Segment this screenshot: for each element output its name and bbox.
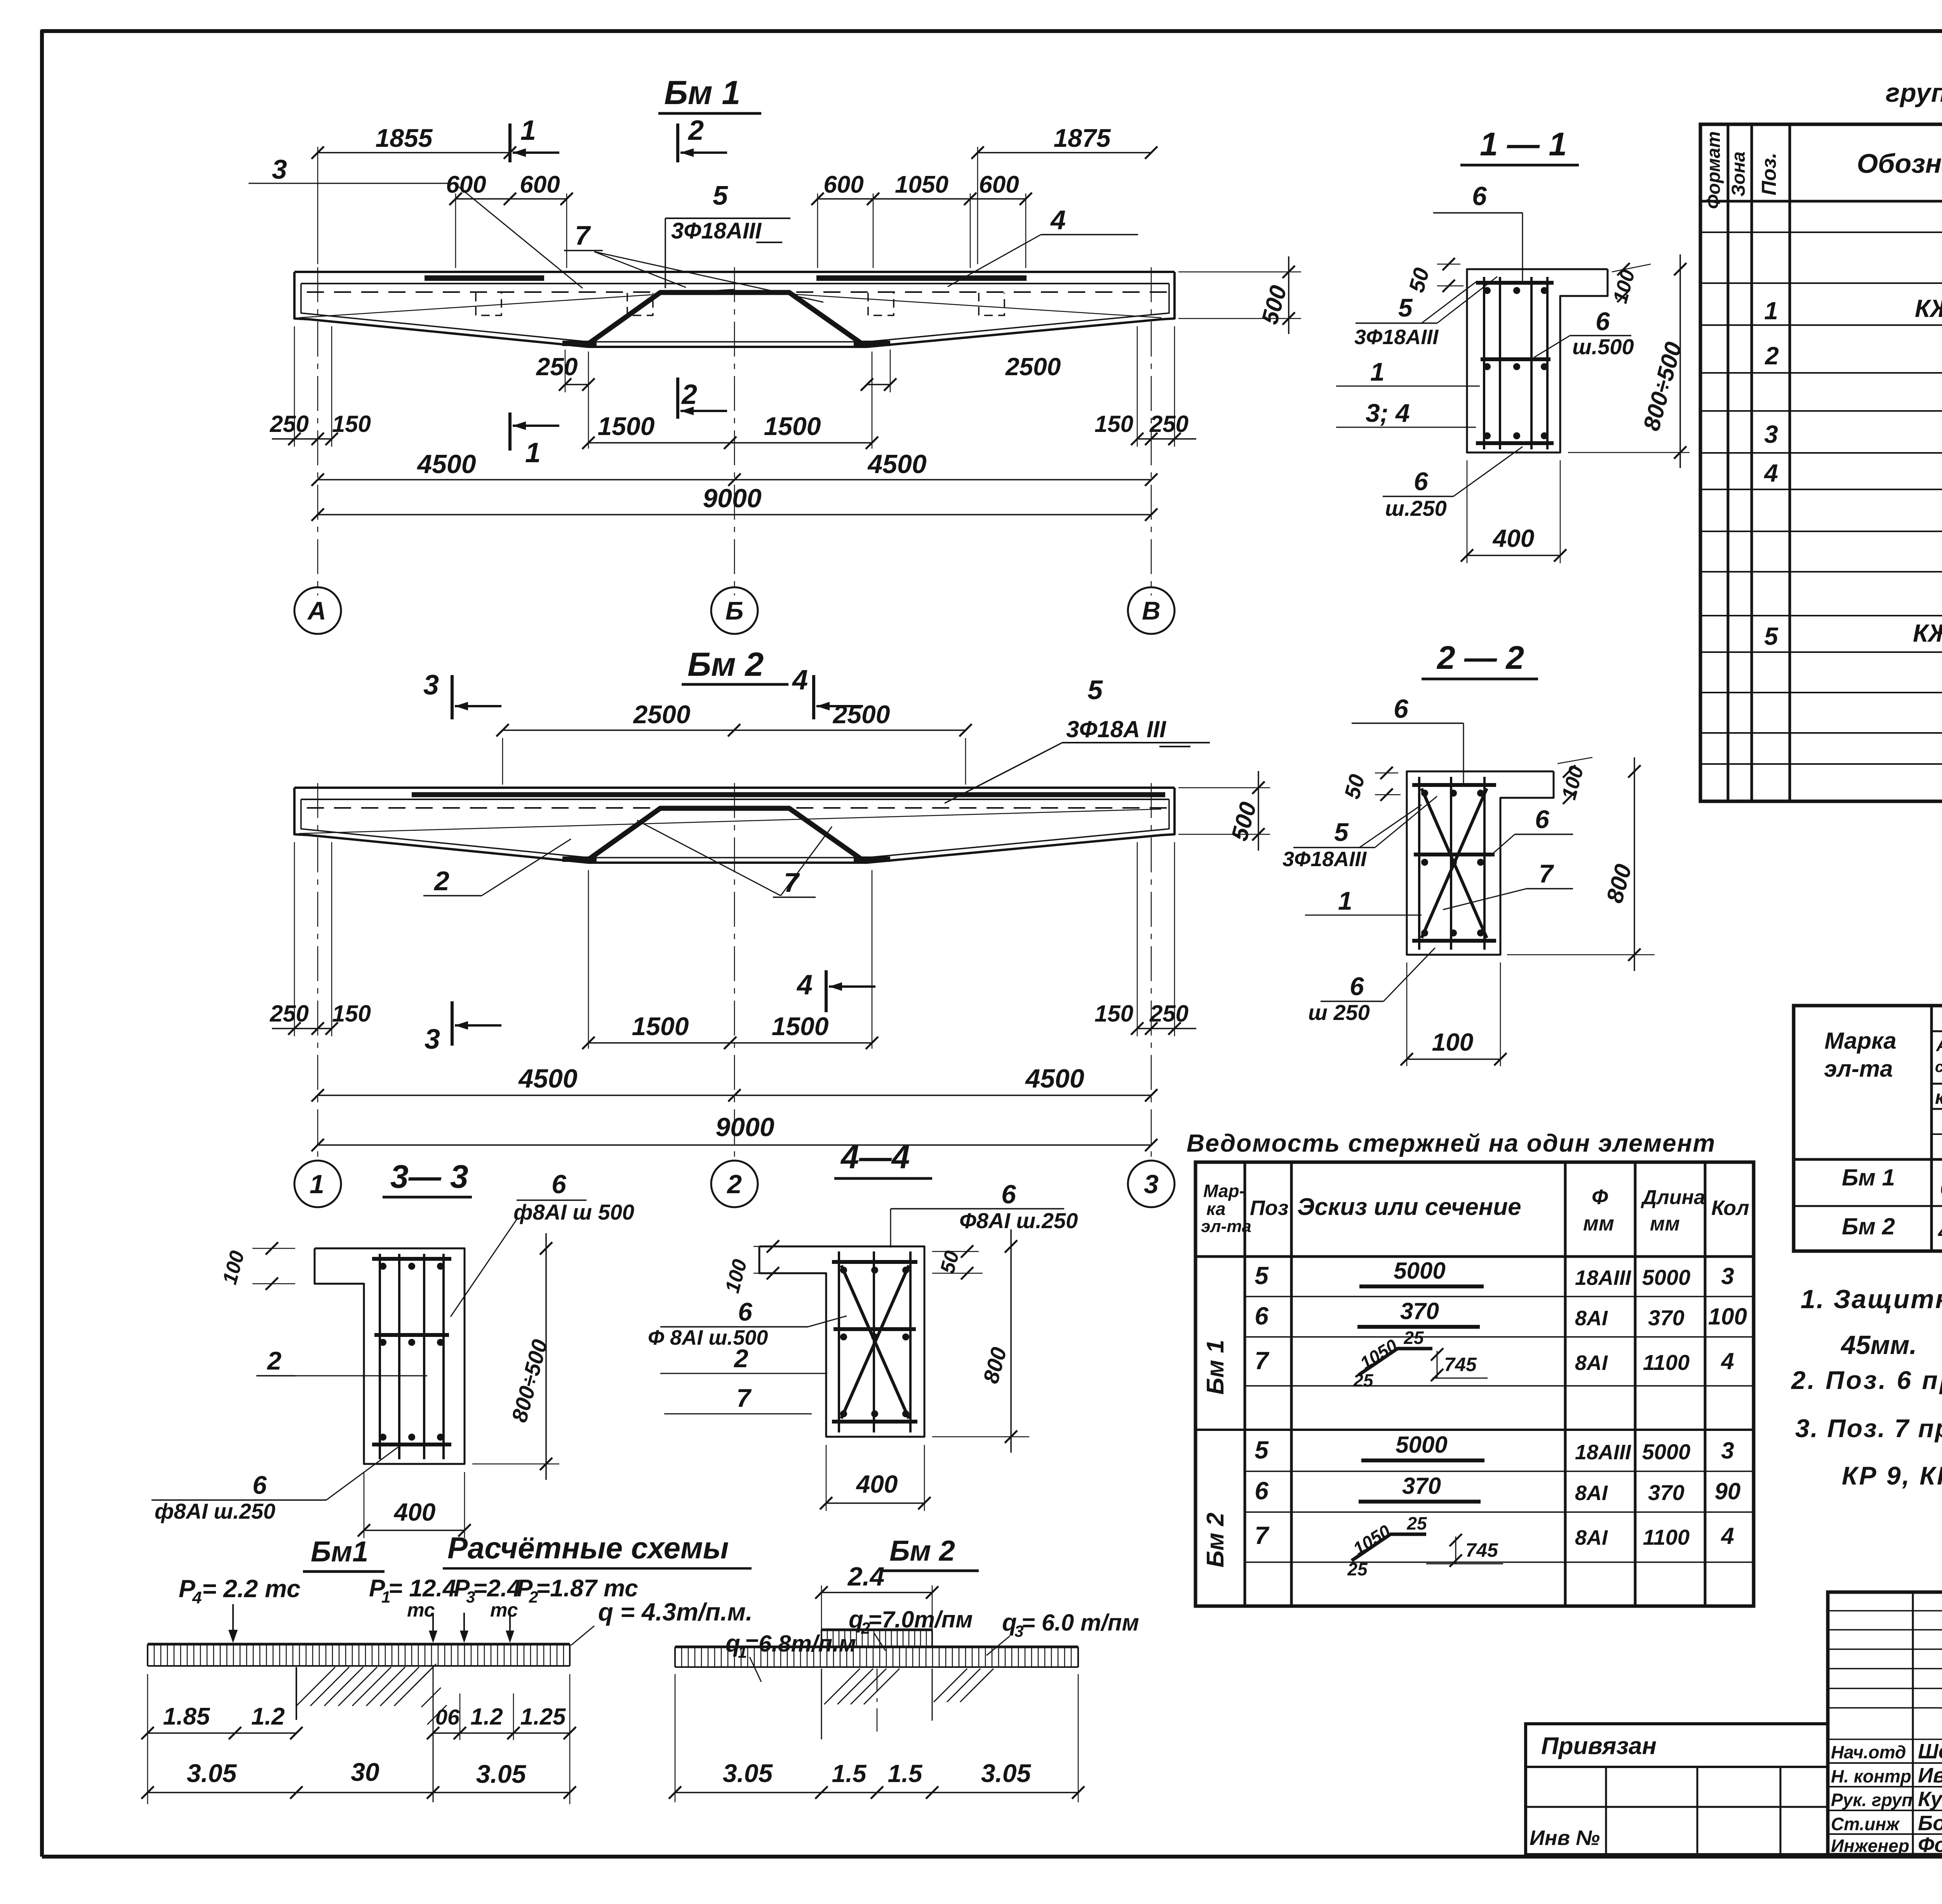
svg-text:3Ф18АIII: 3Ф18АIII <box>671 218 762 244</box>
svg-text:250: 250 <box>1149 1001 1189 1027</box>
section 4-4 callout 7 left <box>664 1384 812 1414</box>
svg-text:Бм 2: Бм 2 <box>1842 1213 1895 1239</box>
section 2-2 horizontal bars <box>1412 785 1496 941</box>
svg-text:4: 4 <box>1050 205 1066 235</box>
svg-text:600: 600 <box>979 171 1019 198</box>
svg-text:2: 2 <box>266 1346 282 1375</box>
svg-text:7: 7 <box>575 220 591 251</box>
section 1-1 dim 50 left <box>1404 258 1463 295</box>
svg-text:А: А <box>307 596 326 625</box>
bar schedule label Бм 1 <box>1202 1340 1229 1394</box>
svg-text:Бм 1: Бм 1 <box>1842 1164 1895 1190</box>
svg-text:1: 1 <box>520 115 536 146</box>
axis line А <box>317 267 318 595</box>
callout 2 Бм2 <box>423 839 571 896</box>
section 4-4 callout 6 Ф8АI ш.250 top <box>891 1180 1078 1248</box>
section 3-3 callout 2 <box>256 1346 427 1376</box>
beam Бм2 long top bar pos.5 (heavy) <box>412 792 1165 797</box>
section 1-1 callout 1 left <box>1336 357 1480 386</box>
svg-text:6: 6 <box>252 1471 267 1499</box>
svg-text:2.4: 2.4 <box>847 1562 885 1591</box>
svg-text:6: 6 <box>1472 181 1487 211</box>
section 2-2 callout 5 3Ф18АIII <box>1282 796 1437 871</box>
section 4-4 title <box>834 1139 932 1178</box>
dimension 250 150 far left Бм2 <box>270 842 371 1036</box>
scheme Бм2 load label q1 <box>726 1630 856 1682</box>
svg-text:25: 25 <box>1347 1559 1368 1579</box>
vertical dimension 500 right of Бм1 <box>1178 256 1301 334</box>
axis line Б <box>734 267 735 595</box>
section 4-4 concrete outline <box>759 1246 924 1437</box>
svg-text:400: 400 <box>393 1498 436 1526</box>
svg-text:06: 06 <box>435 1705 460 1729</box>
svg-text:=7.0т/пм: =7.0т/пм <box>868 1606 973 1632</box>
svg-text:1: 1 <box>1370 357 1385 386</box>
dimension 1500 1500 Бм2 <box>582 870 878 1049</box>
svg-text:8АI: 8АI <box>1575 1307 1608 1330</box>
axis line 3 <box>1151 783 1152 1160</box>
callout 5 3Ф18А III Бм2 <box>945 675 1210 803</box>
dimension 600 600 left <box>446 171 573 268</box>
section mark 1 bottom <box>510 412 559 468</box>
svg-text:Боровик: Боровик <box>1918 1812 1942 1835</box>
svg-text:3: 3 <box>272 154 287 184</box>
svg-text:5: 5 <box>1764 622 1778 650</box>
bar schedule row Бм2 pos6 <box>1255 1473 1740 1505</box>
section 3-3 concrete outline <box>315 1248 465 1464</box>
svg-text:= 2.2 тс: = 2.2 тс <box>202 1575 301 1603</box>
svg-text:5000: 5000 <box>1642 1439 1691 1464</box>
axis circle 2 <box>711 1161 758 1207</box>
svg-text:4: 4 <box>792 665 808 696</box>
section 2-2 dim 100 right top <box>1557 757 1592 804</box>
dimension 1875 <box>971 124 1157 264</box>
dimension 600 1050 600 right <box>811 171 1032 268</box>
svg-text:3: 3 <box>1721 1438 1734 1464</box>
svg-text:600: 600 <box>446 171 486 198</box>
svg-text:4500: 4500 <box>518 1064 577 1093</box>
svg-text:1.25: 1.25 <box>520 1704 566 1730</box>
scheme Бм2 subtitle <box>882 1535 979 1571</box>
svg-text:1 — 1: 1 — 1 <box>1480 126 1567 162</box>
section 4-4 dim 400 bottom <box>820 1445 931 1511</box>
bar schedule headers <box>1201 1181 1749 1236</box>
dimension 150 250 far right <box>1095 326 1196 447</box>
svg-text:67.9: 67.9 <box>1940 1176 1942 1200</box>
svg-text:1500: 1500 <box>632 1012 689 1041</box>
svg-text:Иванов: Иванов <box>1918 1764 1942 1787</box>
row 2 то же Кр10 <box>1765 337 1942 374</box>
svg-text:5: 5 <box>1255 1436 1269 1464</box>
svg-text:Привязан: Привязан <box>1541 1733 1657 1760</box>
svg-text:5000: 5000 <box>1642 1265 1691 1290</box>
svg-text:745: 745 <box>1465 1539 1498 1561</box>
svg-text:3.05: 3.05 <box>723 1759 773 1787</box>
svg-text:370: 370 <box>1648 1305 1684 1330</box>
svg-text:КЖ-22: КЖ-22 <box>1913 619 1942 647</box>
svg-text:Поз: Поз <box>1250 1196 1288 1220</box>
section 1-1 concrete outline <box>1467 269 1608 453</box>
svg-text:1855: 1855 <box>376 124 433 152</box>
svg-text:4: 4 <box>192 1588 202 1607</box>
section 3-3 dim 400 bottom <box>358 1472 471 1538</box>
svg-text:Бм 2: Бм 2 <box>1202 1512 1229 1567</box>
section 1-1 title <box>1460 126 1579 165</box>
svg-text:ш.250: ш.250 <box>1385 496 1447 520</box>
section 1-1 dim 100 right top <box>1609 263 1651 306</box>
svg-text:групповая спецификация для мон: групповая спецификация для монолитных эл… <box>1886 78 1942 108</box>
row 3 Сетка арматурная С3 <box>1764 415 1942 449</box>
svg-text:400: 400 <box>1492 524 1535 552</box>
svg-text:3: 3 <box>1721 1263 1734 1289</box>
svg-text:7: 7 <box>1255 1521 1270 1549</box>
svg-text:6: 6 <box>552 1170 567 1199</box>
axis line 1 <box>317 783 318 1160</box>
svg-text:2500: 2500 <box>832 700 890 729</box>
svg-text:Арматурная: Арматурная <box>1936 1035 1942 1055</box>
svg-text:100: 100 <box>1708 1304 1747 1330</box>
group specification table title <box>1886 78 1942 108</box>
svg-text:В: В <box>1142 596 1161 625</box>
svg-text:ш.500: ш.500 <box>1572 334 1634 359</box>
row 4 то же С4 <box>1763 454 1942 489</box>
section 4-4 vertical bars <box>839 1251 910 1432</box>
svg-text:45мм.: 45мм. <box>1840 1330 1917 1360</box>
dimension 250 150 far left <box>270 326 371 447</box>
svg-text:3Ф18А III: 3Ф18А III <box>1066 716 1166 742</box>
svg-text:Рук. груп: Рук. груп <box>1831 1790 1912 1810</box>
section 3-3 vertical bars <box>380 1254 444 1459</box>
svg-text:370: 370 <box>1400 1298 1439 1324</box>
svg-text:=6.8т/п.м: =6.8т/п.м <box>745 1631 856 1657</box>
svg-text:6: 6 <box>1350 972 1364 1001</box>
svg-text:= 12.4: = 12.4 <box>388 1575 456 1602</box>
section mark 1 top <box>510 115 559 162</box>
section 1-1 callout 6 ш.250 bottom <box>1383 447 1523 520</box>
bar schedule row Бм2 pos5 <box>1255 1432 1734 1464</box>
svg-text:3: 3 <box>425 1024 440 1055</box>
svg-text:Формат: Формат <box>1704 131 1724 209</box>
svg-text:Кол: Кол <box>1711 1196 1749 1220</box>
section 1-1 vertical bars <box>1484 277 1547 449</box>
bar schedule label Бм 2 <box>1202 1512 1229 1567</box>
svg-text:Ф: Ф <box>1592 1185 1608 1209</box>
section 2-2 callout 6 top <box>1352 694 1463 784</box>
section 2-2 callout 6 right <box>1490 805 1573 856</box>
svg-text:Обозначение: Обозначение <box>1857 148 1942 179</box>
svg-text:Эскиз или сечение: Эскиз или сечение <box>1297 1194 1521 1220</box>
svg-text:3: 3 <box>1144 1170 1159 1199</box>
svg-text:Инженер: Инженер <box>1831 1836 1909 1856</box>
section 3-3 callout 6 ф8АI ш 500 top <box>451 1170 634 1317</box>
section 1-1 horizontal bars with dots <box>1476 283 1554 443</box>
title Бм 1 <box>658 74 761 113</box>
svg-text:745: 745 <box>1444 1354 1477 1375</box>
svg-text:150: 150 <box>1095 411 1133 437</box>
svg-text:1100: 1100 <box>1643 1525 1690 1549</box>
callout 4 with leader <box>948 205 1138 287</box>
svg-text:мм: мм <box>1650 1213 1680 1235</box>
svg-text:6: 6 <box>738 1297 753 1326</box>
svg-text:250: 250 <box>270 1001 309 1027</box>
scheme Бм2 support hatching <box>821 1669 994 1739</box>
svg-text:2500: 2500 <box>633 700 691 729</box>
group specification table grid <box>1700 124 1942 801</box>
svg-text:КЖ-29: КЖ-29 <box>1915 294 1942 322</box>
section 4-4 callout 6 Ф8АI ш.500 left <box>648 1297 847 1349</box>
beam Бм1 dashed top reinforcement line <box>307 291 1168 293</box>
svg-text:Длина: Длина <box>1641 1186 1705 1209</box>
beam Бм2 bent bars pos.7 (heavy trapezoid) <box>562 808 890 860</box>
svg-text:3.05: 3.05 <box>476 1760 527 1788</box>
svg-text:Бм 1: Бм 1 <box>1202 1340 1229 1394</box>
svg-text:18АIII: 18АIII <box>1575 1266 1631 1290</box>
dimension 250 left of bent bar <box>536 350 595 392</box>
svg-text:Ст.инж: Ст.инж <box>1831 1814 1900 1834</box>
scheme Бм2 load label q2 <box>849 1606 973 1651</box>
svg-text:3.05: 3.05 <box>981 1759 1032 1787</box>
section 2-2 rebar dots <box>1421 790 1484 936</box>
section mark 3 top <box>423 670 501 719</box>
note 1 <box>1801 1284 1942 1360</box>
title Бм 2 <box>682 646 788 684</box>
svg-text:Фоменко: Фоменко <box>1918 1833 1942 1857</box>
section 2-2 callout 1 left <box>1305 886 1422 915</box>
svg-text:мм: мм <box>1583 1212 1614 1235</box>
section 3-3 horizontal bars with dots <box>372 1259 451 1445</box>
dimension 9000 Бм1 <box>311 484 1157 521</box>
vertical dimension 500 right of Бм2 <box>1178 771 1270 851</box>
svg-text:Шейко: Шейко <box>1918 1740 1942 1763</box>
svg-text:2. Поз. 6 приварить в перес: 2. Поз. 6 приварить в пересечении с плос… <box>1791 1366 1942 1394</box>
svg-text:400: 400 <box>856 1470 898 1498</box>
svg-text:Инв №: Инв № <box>1530 1826 1600 1850</box>
svg-text:=2.4: =2.4 <box>473 1575 520 1602</box>
svg-text:1050: 1050 <box>895 171 948 198</box>
svg-text:2: 2 <box>681 379 697 410</box>
steel table grid <box>1794 1006 1942 1251</box>
scheme Бм2 dim 2.4 top <box>815 1562 938 1647</box>
svg-text:5000: 5000 <box>1394 1258 1445 1284</box>
svg-text:Бм 2: Бм 2 <box>889 1535 955 1567</box>
section 2-2 concrete outline <box>1407 771 1554 955</box>
dimension 4500 4500 Бм2 <box>311 1064 1157 1102</box>
svg-text:= 6.0 т/пм: = 6.0 т/пм <box>1021 1610 1139 1636</box>
bar schedule row Бм1 pos6 <box>1255 1298 1747 1330</box>
svg-text:1500: 1500 <box>764 412 821 440</box>
svg-text:370: 370 <box>1648 1480 1684 1505</box>
svg-text:2: 2 <box>687 115 704 146</box>
scheme Бм1 support hatching <box>296 1664 447 1802</box>
svg-text:Кунцевич: Кунцевич <box>1918 1787 1942 1811</box>
dimension 9000 Бм2 <box>311 1112 1157 1151</box>
scheme Бм2 load band <box>675 1647 1078 1667</box>
section 4-4 horizontal bars <box>832 1262 917 1422</box>
svg-text:Зона: Зона <box>1728 151 1749 197</box>
svg-text:4: 4 <box>1721 1348 1734 1374</box>
svg-text:90: 90 <box>1715 1478 1741 1504</box>
svg-text:эл-та: эл-та <box>1824 1056 1893 1082</box>
section mark 2 top <box>678 115 727 162</box>
axis line 2 <box>734 783 735 1160</box>
svg-text:3: 3 <box>423 670 439 701</box>
svg-text:1.85: 1.85 <box>163 1703 211 1730</box>
beam Бм1 bent bars pos.7 (heavy trapezoid) <box>562 292 890 345</box>
svg-text:150: 150 <box>332 411 371 437</box>
scheme Бм1 subtitle <box>303 1535 385 1572</box>
svg-text:3: 3 <box>1764 420 1778 448</box>
section 1-1 callout 3;4 left <box>1336 399 1476 427</box>
svg-text:Ф 8АI ш.500: Ф 8АI ш.500 <box>648 1326 768 1349</box>
svg-text:150: 150 <box>1095 1001 1133 1027</box>
svg-text:Расчётные схемы: Расчётные схемы <box>447 1531 729 1565</box>
svg-text:2: 2 <box>1765 342 1779 370</box>
svg-text:тс: тс <box>407 1599 435 1621</box>
svg-text:Бм 2: Бм 2 <box>687 646 764 683</box>
svg-text:Ведомость стержней на один эле: Ведомость стержней на один элемент <box>1187 1129 1716 1157</box>
section 2-2 X bent bars <box>1422 788 1487 938</box>
svg-text:Бм1: Бм1 <box>311 1535 368 1568</box>
section 2-2 title <box>1422 639 1538 679</box>
svg-text:Мар-: Мар- <box>1203 1181 1245 1201</box>
svg-text:Марка: Марка <box>1824 1028 1896 1054</box>
svg-text:3.05: 3.05 <box>187 1759 237 1787</box>
svg-text:6: 6 <box>1394 694 1409 724</box>
svg-text:ф8АI ш.250: ф8АI ш.250 <box>155 1499 275 1523</box>
axis circle Б <box>711 587 758 634</box>
section 3-3 dim 100 left <box>218 1242 295 1290</box>
svg-text:5: 5 <box>1334 818 1349 846</box>
svg-text:6: 6 <box>1535 805 1550 834</box>
scheme Бм1 dims row 2 <box>141 1674 576 1804</box>
svg-text:1500: 1500 <box>772 1012 829 1041</box>
svg-text:1500: 1500 <box>598 412 655 440</box>
svg-text:4500: 4500 <box>1025 1064 1084 1093</box>
scheme Бм2 dims row <box>669 1674 1084 1802</box>
bar schedule row Бм2 pos7 bent bar sketch <box>1255 1513 1734 1579</box>
svg-text:1: 1 <box>310 1170 324 1199</box>
svg-text:Бм 1: Бм 1 <box>664 74 740 111</box>
svg-text:6: 6 <box>1596 307 1610 336</box>
section 1-1 dim 400 bottom <box>1461 460 1566 563</box>
scheme Бм1 point loads P1 P3 P2 <box>369 1575 638 1643</box>
svg-text:41.8: 41.8 <box>1938 1219 1942 1244</box>
section 2-2 dim 50 left <box>1340 767 1401 801</box>
svg-text:1. Защитный слой бетона для: 1. Защитный слой бетона для рабочей арма… <box>1801 1284 1942 1314</box>
svg-text:6: 6 <box>1255 1477 1269 1505</box>
svg-text:КР 9, КР10 высота шва h: КР 9, КР10 высота шва h <box>1842 1461 1942 1490</box>
section mark 4 bottom <box>796 969 875 1012</box>
svg-text:100: 100 <box>1432 1028 1474 1056</box>
svg-text:600: 600 <box>520 171 560 198</box>
group specification table column headers <box>1704 131 1942 209</box>
svg-text:Н. контр: Н. контр <box>1831 1766 1911 1786</box>
svg-text:2: 2 <box>733 1344 748 1373</box>
svg-text:8АI: 8АI <box>1575 1351 1608 1375</box>
svg-text:1100: 1100 <box>1643 1350 1690 1375</box>
dimension 150 250 far right Бм2 <box>1095 842 1196 1036</box>
scheme Бм1 load band <box>148 1644 570 1666</box>
note 3 <box>1795 1414 1942 1496</box>
svg-text:5: 5 <box>713 180 728 211</box>
svg-text:1: 1 <box>1764 297 1778 325</box>
note 2 <box>1791 1366 1942 1394</box>
section 4-4 rebar dots <box>840 1267 909 1417</box>
section 4-4 dim 50 right <box>932 1245 983 1279</box>
scheme Бм2 load label q3 <box>987 1609 1139 1655</box>
svg-text:30: 30 <box>351 1758 379 1786</box>
svg-text:ш 250: ш 250 <box>1308 1000 1370 1025</box>
section 2-2 callout 6 ш250 bottom <box>1308 948 1435 1025</box>
svg-text:9000: 9000 <box>715 1112 774 1142</box>
title block signature grid <box>1828 1592 1942 1855</box>
section 2-2 callout 7 right <box>1443 859 1573 910</box>
dimension 2500 right <box>861 350 1061 392</box>
svg-text:4: 4 <box>796 969 813 1001</box>
svg-text:18АIII: 18АIII <box>1575 1441 1631 1464</box>
svg-text:7: 7 <box>736 1384 752 1412</box>
svg-text:370: 370 <box>1402 1473 1441 1499</box>
svg-text:6: 6 <box>1001 1180 1016 1209</box>
svg-text:4500: 4500 <box>867 449 926 479</box>
svg-text:250: 250 <box>270 411 309 437</box>
svg-text:2 — 2: 2 — 2 <box>1436 639 1524 676</box>
axis circle В <box>1128 587 1175 634</box>
svg-text:3Ф18АIII: 3Ф18АIII <box>1354 325 1439 349</box>
svg-text:тс: тс <box>490 1599 518 1621</box>
svg-text:2: 2 <box>726 1170 742 1199</box>
svg-text:7: 7 <box>1539 859 1554 888</box>
steel table row Бм1 <box>1842 1164 1942 1200</box>
section 3-3 callout 6 ф8АI ш.250 bottom <box>151 1446 400 1523</box>
steel table headers <box>1824 1006 1942 1161</box>
callout 5 3Ф18АIII Бм1 <box>665 180 790 288</box>
dimension 1855 <box>311 124 516 264</box>
scheme Бм2 raised middle load block <box>821 1630 932 1647</box>
section 4-4 dim 100 left <box>721 1240 792 1295</box>
svg-text:4—4: 4—4 <box>840 1139 910 1175</box>
section 1-1 callout 6 ш.500 right <box>1534 307 1634 359</box>
axis line В <box>1151 267 1152 595</box>
section 4-4 dim 800 right <box>932 1229 1029 1453</box>
section mark 2 bottom <box>678 378 727 419</box>
svg-text:1.2: 1.2 <box>251 1703 285 1730</box>
section mark 3 bottom <box>425 1001 501 1055</box>
section 1-1 callout 5 3Ф18АIII left <box>1354 277 1497 349</box>
svg-text:9000: 9000 <box>703 484 761 513</box>
section 1-1 dim 800-500 right <box>1568 254 1690 468</box>
beam Бм1 thin construction diagonals <box>299 289 1161 318</box>
steel table row Бм2 <box>1842 1213 1942 1246</box>
svg-text:3— 3: 3— 3 <box>390 1158 468 1195</box>
svg-text:1.5: 1.5 <box>888 1760 923 1787</box>
svg-text:1.2: 1.2 <box>470 1704 503 1730</box>
section 4-4 X bent bars <box>841 1265 909 1418</box>
svg-text:2500: 2500 <box>1005 353 1061 381</box>
svg-text:3. Поз. 7 приварить к продо: 3. Поз. 7 приварить к продольным стержня… <box>1795 1414 1942 1443</box>
svg-text:250: 250 <box>1149 411 1189 437</box>
svg-text:5: 5 <box>1255 1262 1269 1290</box>
svg-text:Б: Б <box>726 596 744 625</box>
svg-text:5000: 5000 <box>1396 1432 1447 1458</box>
section 2-2 dim 100 bottom <box>1401 962 1507 1066</box>
callout 7 Бм2 <box>637 820 832 898</box>
svg-text:6: 6 <box>1255 1302 1269 1330</box>
svg-text:25: 25 <box>1403 1328 1424 1348</box>
title block signatures text <box>1831 1740 1942 1857</box>
axis circle 3 <box>1128 1161 1175 1207</box>
axis circle А <box>294 587 341 634</box>
